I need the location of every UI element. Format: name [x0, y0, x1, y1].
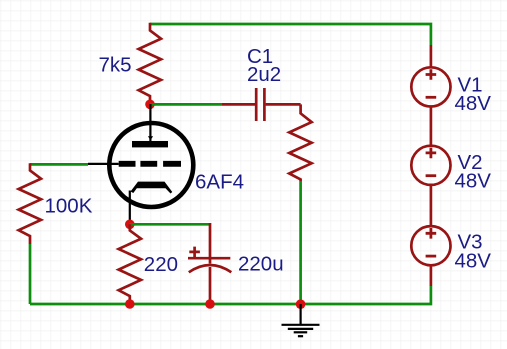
svg-text:48V: 48V — [455, 92, 492, 115]
capacitor 220u polarized — [188, 223, 231, 304]
resistor 7k5 — [139, 23, 161, 104]
triode cathode lead — [129, 191, 131, 225]
wire cathode node to 220u — [130, 223, 210, 226]
wire right resistor to bottom rail — [299, 182, 302, 304]
node 220 bottom — [125, 299, 135, 309]
node cathode junction — [125, 220, 135, 230]
triode plate lead — [149, 104, 151, 142]
svg-text:220: 220 — [144, 253, 178, 276]
ground — [282, 304, 320, 336]
node plate junction — [145, 100, 155, 110]
svg-text:48V: 48V — [455, 170, 492, 193]
triode cathode — [131, 182, 173, 194]
source V2 — [411, 146, 450, 226]
resistor 220 — [119, 224, 141, 304]
node ground junction — [296, 299, 306, 309]
svg-text:100K: 100K — [45, 195, 93, 218]
resistor 100K — [19, 163, 41, 244]
svg-text:6AF4: 6AF4 — [195, 170, 244, 193]
resistor right (unlabeled) — [289, 104, 311, 181]
triode 6AF4 envelope — [109, 123, 193, 207]
wire plate node to C1 — [150, 103, 222, 106]
wire 100K to bottom rail — [29, 244, 32, 304]
wire top rail — [150, 24, 431, 45]
triode plate — [132, 141, 168, 147]
triode grid lead — [88, 163, 119, 165]
node 220u bottom — [205, 299, 215, 309]
source V1 — [411, 45, 450, 145]
wire grid to 100K — [30, 163, 88, 166]
svg-text:48V: 48V — [455, 249, 492, 272]
source V3 — [411, 226, 450, 286]
svg-text:2u2: 2u2 — [247, 63, 281, 86]
triode grid — [119, 161, 181, 167]
capacitor C1 — [222, 88, 301, 121]
svg-text:220u: 220u — [238, 253, 284, 276]
svg-text:7k5: 7k5 — [98, 54, 131, 77]
wire bottom rail — [30, 286, 431, 304]
